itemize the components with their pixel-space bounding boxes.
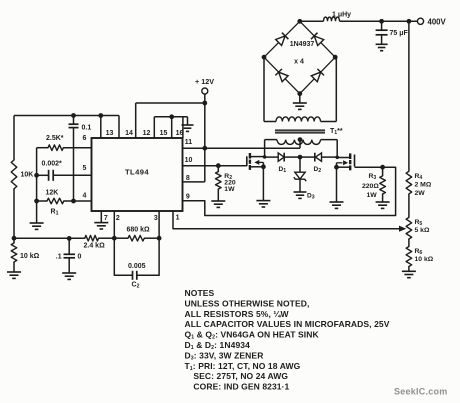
svg-text:R3: R3 <box>369 173 377 181</box>
pin number 6 <box>83 135 87 142</box>
terminal +12V <box>202 88 208 94</box>
svg-text:11: 11 <box>185 139 193 146</box>
capacitor 0.1 (pin4 net) <box>69 116 79 202</box>
wire pin 3 vertical <box>158 211 160 238</box>
svg-text:10: 10 <box>185 157 193 164</box>
ground below Q1 <box>256 201 270 207</box>
pin number 11 <box>185 139 193 146</box>
wire pin 16 riser <box>171 117 173 138</box>
svg-text:10 kΩ: 10 kΩ <box>415 256 434 263</box>
svg-text:T1**: T1** <box>330 128 343 136</box>
ground below lower-left 10 kOhm <box>7 272 21 278</box>
wire left vertical rail x=14 <box>13 116 15 273</box>
svg-text:5 kΩ: 5 kΩ <box>415 227 430 234</box>
transistor Q2 channel segments <box>349 153 351 170</box>
svg-text:.1: .1 <box>56 254 62 261</box>
svg-text:12: 12 <box>143 130 151 137</box>
label 220ohm <box>362 183 379 190</box>
wire pin 14/12 riser to +12V rail <box>135 103 137 138</box>
node T1 centre tap <box>298 137 303 142</box>
node bridge left <box>262 55 267 60</box>
svg-text:6: 6 <box>83 135 87 142</box>
svg-text:ALL RESISTORS 5%, ¼W: ALL RESISTORS 5%, ¼W <box>185 309 290 319</box>
svg-text:13: 13 <box>106 130 114 137</box>
label 0 <box>78 254 82 261</box>
node bridge bottom <box>297 91 302 96</box>
svg-text:10 kΩ: 10 kΩ <box>20 253 40 260</box>
diode bridge top-right (1N4937) <box>300 21 335 57</box>
ground below D3 <box>294 192 307 198</box>
node 0.002 junction <box>34 173 39 178</box>
pin number 7 <box>104 215 108 222</box>
node Q1 source <box>261 164 266 169</box>
svg-text:2 MΩ: 2 MΩ <box>415 182 432 189</box>
resistor R3 220ohm 1W <box>380 167 386 202</box>
diode D2 <box>300 153 337 162</box>
label T1** <box>330 128 343 136</box>
R5 wiper arrowhead <box>399 226 406 232</box>
label 1N4937 <box>290 41 315 48</box>
wire primary right end to Q2 drain <box>321 140 338 158</box>
node 680k right <box>157 236 162 241</box>
wire +12V drop <box>204 94 206 103</box>
svg-text:NOTES: NOTES <box>185 288 215 298</box>
wire +12V to pin14 riser <box>136 102 205 104</box>
pin number 9 <box>186 194 190 201</box>
node bridge top <box>297 19 302 24</box>
transformer T1 secondary winding <box>276 117 321 122</box>
op-amp U1 TL494 body <box>92 138 183 211</box>
svg-text:0.1: 0.1 <box>82 124 92 131</box>
node 0.1-cap top junction <box>71 113 76 118</box>
label 5 kOhm <box>415 227 430 234</box>
watermark SeekIC.com <box>394 387 448 397</box>
wire Q1 drain rail to D1 <box>265 156 279 158</box>
svg-text:+ 12V: + 12V <box>195 77 214 86</box>
node .1 cap top <box>67 236 72 241</box>
resistor 12K R1 <box>47 198 64 204</box>
resistor R2 220 1W <box>216 166 222 201</box>
svg-text:CORE: IND GEN 8231·1: CORE: IND GEN 8231·1 <box>193 382 289 392</box>
transistor Q2 drain lead <box>337 157 350 159</box>
label C2 <box>132 282 140 290</box>
label 12K <box>46 190 59 197</box>
svg-text:15: 15 <box>160 130 168 137</box>
capacitor 75 uF <box>376 21 388 44</box>
svg-text:2: 2 <box>116 215 120 222</box>
resistor R4 2 MOhm 2W <box>406 171 412 194</box>
svg-text:D3: D3 <box>307 193 315 201</box>
label R4 <box>415 173 423 181</box>
node output/R4 junction <box>407 19 412 24</box>
capacitor C2 0.005 <box>114 238 159 280</box>
transistor Q2 gate bar <box>354 155 356 167</box>
label D3 <box>307 193 315 201</box>
label 2 MOhm <box>415 182 432 189</box>
node left rail / 2.4k rail junction <box>12 236 17 241</box>
wire top-left rail (pin13/0.1 cap net) <box>14 115 119 117</box>
diode bridge top-left (1N4937) <box>264 21 300 57</box>
svg-text:2.5K*: 2.5K* <box>46 135 64 142</box>
ground below Q2 <box>330 202 344 208</box>
resistor 680 kOhm <box>114 235 159 241</box>
svg-text:SeekIC.com: SeekIC.com <box>394 387 448 397</box>
label x 4 <box>294 59 304 66</box>
wire primary left end to Q1 drain <box>265 140 277 157</box>
svg-text:SEC: 275T, NO 24 AWG: SEC: 275T, NO 24 AWG <box>193 371 288 381</box>
svg-text:C2: C2 <box>132 282 140 290</box>
svg-text:680 kΩ: 680 kΩ <box>127 227 151 234</box>
zener D3 <box>294 157 306 192</box>
transformer T1 primary winding <box>277 140 321 145</box>
label 2.5K* <box>46 135 64 142</box>
svg-text:400V: 400V <box>428 18 447 27</box>
svg-text:75 μF: 75 μF <box>390 30 409 37</box>
svg-text:x 4: x 4 <box>294 59 304 66</box>
wire IC top-right corner riser <box>182 117 184 138</box>
svg-text:16: 16 <box>176 130 184 137</box>
svg-text:TL494: TL494 <box>125 168 149 177</box>
wire pin 9 to bottom rail <box>183 167 396 215</box>
svg-text:1: 1 <box>176 215 180 222</box>
pin number 16 <box>176 130 184 137</box>
label R6 <box>415 248 423 256</box>
svg-text:ALL CAPACITOR VALUES IN MICROF: ALL CAPACITOR VALUES IN MICROFARADS, 25V <box>185 319 390 329</box>
pin number 1 <box>176 215 180 222</box>
svg-text:8: 8 <box>186 175 190 182</box>
svg-text:7: 7 <box>104 215 108 222</box>
ground below bridge <box>293 94 307 110</box>
node R2 top junction <box>216 163 221 168</box>
label .1 <box>56 254 62 261</box>
inductor 1 uHy <box>324 17 340 21</box>
label D1 <box>279 166 287 174</box>
wire Q2 source to ground <box>336 167 338 202</box>
ground below .1 cap <box>62 273 76 279</box>
svg-text:220Ω: 220Ω <box>362 183 379 190</box>
resistor 10 kOhm (lower left) <box>11 243 17 262</box>
pin number 5 <box>83 165 87 172</box>
wire pin 7 stub <box>100 211 102 223</box>
wire Q1 source to ground <box>262 167 264 201</box>
resistor R6 10 kOhm <box>406 247 412 267</box>
wire pin 6 line <box>37 147 92 149</box>
capacitor 0.002* (pin5 line) <box>37 170 92 181</box>
node R3 top junction <box>380 165 385 170</box>
transistor Q1 drain lead <box>250 156 265 158</box>
label 1W (R3) <box>367 192 378 199</box>
svg-text:9: 9 <box>186 194 190 201</box>
label +12V <box>195 77 214 86</box>
wire bridge right to secondary <box>321 57 337 121</box>
transistor Q2 body arrow <box>337 160 349 167</box>
wire pin 13 riser right <box>118 116 120 139</box>
transistor Q1 source lead <box>250 166 264 168</box>
node Q1 drain junction <box>263 155 267 159</box>
transistor Q1 body arrow <box>254 160 263 167</box>
label 2W <box>415 190 426 197</box>
node 75uF junction <box>379 19 384 24</box>
diode bridge bottom-right (1N4937) <box>300 57 335 93</box>
svg-text:5: 5 <box>83 165 87 172</box>
node bridge right <box>333 55 338 60</box>
transformer T1 core <box>275 130 325 132</box>
svg-text:0: 0 <box>78 254 82 261</box>
svg-text:1 μHy: 1 μHy <box>332 11 351 18</box>
svg-text:14: 14 <box>125 130 133 137</box>
svg-text:R1: R1 <box>51 209 59 217</box>
svg-text:0.002*: 0.002* <box>42 161 63 168</box>
svg-text:12K: 12K <box>46 190 59 197</box>
svg-text:1W: 1W <box>367 192 378 199</box>
svg-text:2.4 kΩ: 2.4 kΩ <box>84 243 106 250</box>
resistor 2.5K* <box>48 145 63 151</box>
wire centre tap drop <box>299 140 301 149</box>
node +12V junction <box>202 101 207 106</box>
label 10 kOhm <box>20 253 40 260</box>
ground below R6 <box>402 271 416 277</box>
label 1W (R2) <box>224 186 235 193</box>
wire pin 1 to R5 wiper <box>173 211 400 229</box>
pin number 8 <box>186 175 190 182</box>
label 680 kOhm <box>127 227 151 234</box>
diode bridge bottom-left (1N4937) <box>264 57 300 93</box>
wire bridge top to inductor <box>300 20 324 22</box>
label 0.002* <box>42 161 63 168</box>
svg-text:UNLESS OTHERWISE NOTED,: UNLESS OTHERWISE NOTED, <box>185 298 310 308</box>
diode D1 <box>278 153 300 162</box>
node 680k left <box>112 236 117 241</box>
node 12K junction <box>34 199 39 204</box>
wire output divider vertical <box>408 21 410 271</box>
svg-text:4: 4 <box>83 192 87 199</box>
wire pin 11 to centre-tap rail <box>183 147 301 149</box>
node pin-13 riser junction <box>98 113 103 118</box>
svg-text:D1: D1 <box>279 166 287 174</box>
svg-text:1N4937: 1N4937 <box>290 41 315 48</box>
transistor Q2 source lead <box>337 166 351 168</box>
label 10K <box>21 172 34 179</box>
label 2.4 kOhm <box>84 243 106 250</box>
node 0.1 column / pin4 line junction <box>71 199 76 204</box>
wire pin 15 riser <box>153 117 155 138</box>
ground below bias vertical <box>30 223 44 229</box>
pin number 15 <box>160 130 168 137</box>
svg-text:1W: 1W <box>224 186 235 193</box>
pin number 4 <box>83 192 87 199</box>
label R1 <box>51 209 59 217</box>
wire 2.4k rail <box>14 237 114 239</box>
svg-text:10K: 10K <box>21 172 34 179</box>
ground at pin 7 <box>94 223 108 229</box>
ground at pin 16 <box>182 117 194 132</box>
svg-text:D2: D2 <box>314 166 322 174</box>
node Q2 drain junction <box>335 156 339 160</box>
transistor Q1 gate bar <box>246 156 248 166</box>
wire pin 13 riser left <box>100 116 102 139</box>
node pin16 top junction <box>169 114 174 119</box>
label 0.005 <box>128 263 146 270</box>
svg-text:2W: 2W <box>415 190 426 197</box>
label 220 <box>224 179 236 186</box>
label R5 <box>415 219 423 227</box>
pin number 3 <box>154 215 158 222</box>
wire pin 8 stub <box>183 181 205 183</box>
wire left bias vertical x=36.6 <box>36 148 38 223</box>
pin number 2 <box>116 215 120 222</box>
ground below 75uF <box>376 44 388 50</box>
pin number 14 <box>125 130 133 137</box>
node Q2 source <box>334 165 339 170</box>
svg-text:3: 3 <box>154 215 158 222</box>
pin number 12 <box>143 130 151 137</box>
label 0.1 <box>82 124 92 131</box>
pin number 13 <box>106 130 114 137</box>
transistor Q2 gate lead <box>355 166 383 168</box>
wire bridge left to secondary <box>264 57 276 121</box>
svg-text:R4: R4 <box>415 173 423 181</box>
label D2 <box>314 166 322 174</box>
svg-text:0.005: 0.005 <box>128 263 146 270</box>
label TL494 <box>125 168 149 177</box>
label 1 uHy <box>332 11 351 18</box>
terminal 400V <box>417 18 423 24</box>
wire pin 2 vertical <box>113 211 115 238</box>
pin number 10 <box>185 157 193 164</box>
wire inductor to output <box>340 20 418 22</box>
ground below R3 <box>376 202 390 208</box>
transistor Q1 channel segments <box>249 153 251 170</box>
capacitor .1 (bottom left) <box>64 238 76 273</box>
resistor 2.4 kOhm <box>85 235 99 241</box>
node pin 11 junction <box>202 146 207 151</box>
wire pin 4 line <box>37 200 92 202</box>
wire pin 10 line to Q1 gate <box>183 165 247 167</box>
label R2 <box>224 173 232 181</box>
label 75 uF <box>390 30 409 37</box>
wire +12V vertical to pin 11/8 <box>204 103 206 182</box>
label R3 <box>369 173 377 181</box>
potentiometer R5 5 kOhm <box>406 217 412 239</box>
node D1-D2-D3 junction <box>298 155 303 160</box>
notes text block <box>185 288 390 392</box>
label 10 kOhm (R6) <box>415 256 434 263</box>
ground below R2 <box>211 201 225 207</box>
resistor 10K (upper left) <box>11 160 17 189</box>
wire pin15-16 top bar <box>154 116 187 118</box>
label 400V <box>428 18 447 27</box>
